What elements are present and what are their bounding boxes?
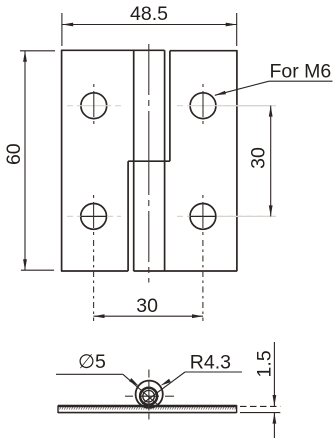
left leaf inner edge lower (127, 161, 129, 271)
svg-text:1.5: 1.5 (254, 350, 276, 377)
knuckle pin hole (143, 390, 155, 402)
svg-text:30: 30 (247, 147, 269, 169)
hole top-left centre lines (67, 84, 121, 128)
hole top-left (81, 93, 107, 119)
side view flat bar (58, 405, 237, 413)
hole top-right (For M6) (190, 93, 216, 119)
plate bottom edge right segment (134, 270, 238, 272)
leader R4.3 (142, 372, 242, 404)
plate left edge (61, 50, 63, 271)
svg-text:For M6: For M6 (270, 61, 332, 83)
knuckle rolled ring (140, 388, 157, 405)
svg-text:∅5: ∅5 (78, 351, 106, 373)
svg-text:R4.3: R4.3 (190, 351, 231, 373)
hole bottom-left (81, 204, 107, 230)
dimension 60 (20, 51, 55, 270)
knuckle horizontal centre line (125, 395, 174, 397)
joint step line (128, 160, 170, 162)
knuckle left edge line (133, 50, 135, 271)
right leaf inner edge upper (169, 51, 171, 162)
svg-text:30: 30 (136, 295, 158, 317)
hinge centre line vertical (148, 44, 150, 283)
dimension 1.5 (240, 342, 280, 438)
plate top edge left segment (61, 49, 165, 51)
extension down to 30 dim (93, 240, 95, 321)
extension down to 30 dim (202, 240, 204, 321)
plate top edge right segment (170, 50, 237, 52)
plate bottom edge left segment (61, 270, 128, 272)
hole top-right centre lines (177, 84, 276, 128)
hole bottom-right (190, 204, 216, 230)
knuckle outer circle R4.3 (136, 381, 163, 408)
dimension 30 bottom (94, 315, 204, 317)
hole bottom-right centre lines (177, 195, 276, 321)
svg-text:60: 60 (3, 143, 25, 165)
plate right edge (236, 50, 238, 271)
dimension 48.5 (62, 13, 237, 46)
svg-text:48.5: 48.5 (130, 3, 168, 25)
dimension 30 right (219, 106, 276, 217)
label For M6 leader (215, 81, 333, 95)
knuckle vertical centre line (148, 370, 150, 422)
left leaf tongue right edge (164, 50, 166, 271)
hole bottom-left centre lines (67, 195, 121, 321)
leader dia 5 (56, 374, 158, 404)
